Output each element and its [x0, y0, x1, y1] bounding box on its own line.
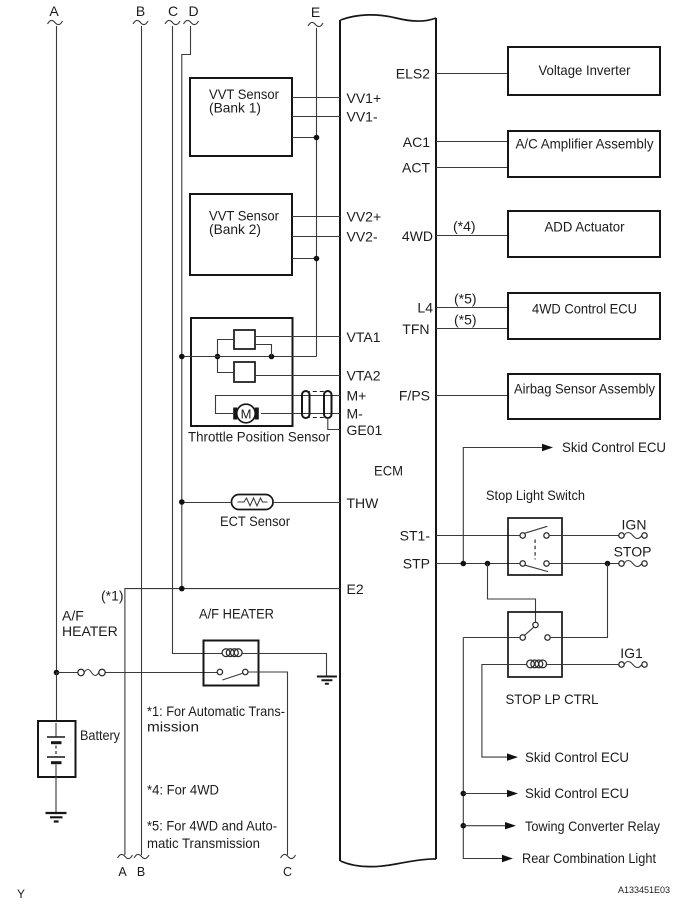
node D junction TPS: [179, 354, 185, 360]
svg-text:Towing Converter Relay: Towing Converter Relay: [525, 818, 660, 834]
connector A top: [48, 3, 63, 25]
svg-text:(*5): (*5): [454, 312, 477, 328]
svg-text:E: E: [311, 4, 320, 20]
wire E: [316, 28, 318, 357]
svg-text:STOP LP CTRL: STOP LP CTRL: [506, 691, 599, 707]
connector E top: [308, 4, 323, 27]
svg-text:ECT Sensor: ECT Sensor: [220, 513, 290, 529]
svg-text:VV2+: VV2+: [347, 209, 382, 225]
svg-text:A/F HEATER: A/F HEATER: [199, 606, 274, 622]
VVT Sensor (Bank 2) box: [190, 194, 292, 275]
ADD Actuator box: [508, 211, 660, 257]
svg-text:IG1: IG1: [620, 645, 643, 661]
svg-text:ADD Actuator: ADD Actuator: [545, 219, 625, 235]
wire M+: [216, 396, 341, 414]
wire VV2-: [292, 236, 341, 238]
svg-text:Stop Light Switch: Stop Light Switch: [486, 487, 585, 503]
wire ACT: [436, 167, 508, 169]
svg-text:(*1): (*1): [101, 588, 124, 604]
wire C: [173, 26, 223, 654]
arrowhead towing: [505, 822, 516, 829]
node STP junction ctrl: [485, 561, 491, 567]
svg-text:A/F: A/F: [62, 608, 84, 624]
fusible link: [57, 669, 218, 675]
wire VV1+: [292, 97, 341, 99]
wire 4WD: [436, 235, 508, 237]
svg-text:HEATER: HEATER: [62, 623, 118, 639]
note *1: [147, 703, 285, 735]
svg-text:Voltage Inverter: Voltage Inverter: [539, 62, 631, 78]
wire AC1: [436, 141, 508, 143]
node STP junction skid: [461, 561, 467, 567]
wire relay output to C bottom: [248, 672, 288, 855]
svg-text:ACT: ACT: [402, 160, 430, 176]
wire D: [182, 26, 191, 589]
node A battery junction: [54, 670, 60, 676]
sensor element square 1: [234, 330, 255, 349]
wire VTA2: [255, 375, 341, 377]
svg-text:L4: L4: [417, 300, 433, 316]
wire VVT1 ground stub: [292, 137, 317, 139]
battery: [38, 673, 120, 778]
motor M1 throttle: [235, 404, 257, 423]
connector C bottom: [281, 854, 296, 879]
svg-text:M-: M-: [347, 406, 364, 422]
svg-text:IGN: IGN: [622, 517, 647, 533]
Throttle Position Sensor box: [188, 318, 330, 445]
arrowhead rear combination light: [502, 855, 513, 862]
label A/F HEATER left: [62, 608, 118, 640]
svg-text:TFN: TFN: [402, 321, 429, 337]
wire IGN: [549, 535, 619, 537]
wire E2: [125, 589, 341, 855]
svg-text:(*5): (*5): [454, 291, 477, 307]
node D junction ECT: [179, 499, 185, 505]
svg-text:*4: For 4WD: *4: For 4WD: [147, 782, 219, 798]
A/C Amplifier Assembly box: [508, 131, 660, 177]
svg-text:*1: For Automatic Trans-: *1: For Automatic Trans-: [147, 703, 285, 719]
svg-text:C: C: [283, 865, 292, 879]
svg-text:Skid Control ECU: Skid Control ECU: [525, 785, 629, 801]
svg-text:M+: M+: [347, 388, 367, 404]
node D junction E2: [179, 586, 185, 592]
node skid 3 junction: [461, 791, 467, 797]
connector IGN: [619, 517, 647, 539]
note *5: [147, 818, 277, 852]
wire L4: [436, 307, 508, 309]
ground A/F heater: [317, 677, 337, 684]
wire A: [56, 26, 58, 673]
svg-text:Y: Y: [17, 887, 25, 901]
wire left contact branch down: [463, 638, 504, 859]
wire sq1 lower stub: [255, 345, 272, 357]
node E junction 1: [314, 135, 320, 141]
wire skid 3: [463, 793, 509, 795]
wire STP: [436, 563, 520, 565]
svg-text:4WD Control ECU: 4WD Control ECU: [532, 301, 637, 317]
svg-text:matic Transmission: matic Transmission: [147, 835, 260, 851]
svg-text:A: A: [49, 3, 59, 19]
node E junction 2: [314, 256, 320, 262]
wire IG1: [546, 664, 619, 666]
wire VV2+: [292, 216, 341, 218]
node STOP junction: [605, 561, 611, 567]
switch SW1 stop light: [508, 518, 562, 575]
arrowhead skid 3: [507, 790, 518, 797]
node sq1 stub junction: [269, 354, 275, 360]
wire skid control 1: [463, 448, 543, 564]
connector A bottom: [118, 854, 133, 879]
svg-text:B: B: [136, 3, 145, 19]
relay STOP LP CTRL: [508, 612, 562, 677]
svg-text:ECM: ECM: [374, 463, 403, 479]
svg-text:(Bank 1): (Bank 1): [209, 100, 261, 116]
svg-text:Rear Combination Light: Rear Combination Light: [522, 850, 656, 866]
svg-text:E2: E2: [347, 581, 364, 597]
op ECM box: [340, 15, 436, 867]
wire B: [141, 26, 143, 855]
svg-text:A133451E03: A133451E03: [618, 885, 670, 895]
svg-text:ST1-: ST1-: [400, 528, 431, 544]
svg-text:A: A: [118, 865, 127, 879]
svg-text:Skid Control ECU: Skid Control ECU: [525, 749, 629, 765]
wire TFN: [436, 328, 508, 330]
svg-text:Skid Control ECU: Skid Control ECU: [562, 439, 666, 455]
connector C top: [165, 3, 180, 25]
svg-text:Airbag Sensor Assembly: Airbag Sensor Assembly: [514, 381, 655, 397]
svg-text:M: M: [241, 407, 252, 422]
svg-text:THW: THW: [347, 495, 380, 511]
wire STOP to relay right: [563, 564, 608, 638]
svg-text:Battery: Battery: [80, 727, 120, 743]
arrowhead skid 2: [507, 753, 518, 760]
wire relay left contact: [463, 637, 520, 639]
wire relay right contact: [550, 637, 562, 639]
svg-text:F/PS: F/PS: [399, 388, 430, 404]
connector STOP: [614, 544, 652, 567]
ground battery: [46, 777, 67, 822]
svg-text:VV1+: VV1+: [347, 90, 382, 106]
connector B bottom: [134, 854, 149, 879]
ECT Sensor: [220, 495, 290, 530]
node bracket junction: [215, 354, 221, 360]
connector D top: [184, 3, 199, 25]
wire coil branch skid 2: [482, 665, 527, 758]
wire VV1-: [292, 116, 341, 118]
wire STOP: [549, 563, 619, 565]
svg-text:4WD: 4WD: [402, 228, 433, 244]
svg-text:ELS2: ELS2: [396, 66, 430, 82]
sensor element square 2: [234, 362, 255, 382]
Airbag Sensor Assembly box: [508, 374, 660, 419]
svg-text:*5: For 4WD and Auto-: *5: For 4WD and Auto-: [147, 818, 277, 834]
wire TPS common node: [182, 356, 317, 358]
wire STP to relay top: [488, 564, 536, 623]
svg-text:STOP: STOP: [614, 544, 652, 560]
wire VVT2 ground stub: [292, 258, 317, 260]
node towing junction: [461, 823, 467, 829]
wire coil to ground: [241, 654, 326, 677]
wire GE01: [328, 418, 341, 430]
arrowhead skid 1: [542, 444, 553, 451]
svg-text:mission: mission: [147, 719, 199, 735]
wire towing converter relay: [463, 825, 507, 827]
svg-text:VV2-: VV2-: [347, 229, 378, 245]
wire ELS2: [436, 73, 508, 75]
svg-text:AC1: AC1: [403, 134, 430, 150]
svg-text:VTA2: VTA2: [347, 368, 381, 384]
svg-text:A/C Amplifier Assembly: A/C Amplifier Assembly: [516, 136, 654, 152]
svg-text:GE01: GE01: [347, 422, 383, 438]
svg-text:(Bank 2): (Bank 2): [209, 221, 261, 237]
svg-text:Throttle Position Sensor: Throttle Position Sensor: [188, 429, 330, 445]
svg-text:D: D: [188, 3, 198, 19]
svg-text:VV1-: VV1-: [347, 109, 378, 125]
connector oval pair: [302, 391, 332, 418]
VVT Sensor (Bank 1) box: [190, 78, 292, 156]
wire sensor left bracket: [218, 340, 235, 373]
svg-text:B: B: [137, 865, 145, 879]
wire ST1-: [436, 535, 520, 537]
svg-text:STP: STP: [403, 556, 430, 572]
wire M-: [261, 413, 341, 415]
svg-text:C: C: [168, 3, 178, 19]
svg-text:(*4): (*4): [453, 218, 476, 234]
wire F/PS: [436, 395, 508, 397]
4WD Control ECU box: [508, 293, 660, 339]
connector B top: [133, 3, 148, 25]
connector IG1: [619, 645, 647, 668]
wire THW left: [182, 502, 232, 504]
wire VTA1: [255, 336, 341, 338]
svg-text:VTA1: VTA1: [347, 329, 381, 345]
relay A/F heater: [204, 641, 259, 686]
Voltage Inverter box: [508, 47, 660, 95]
wire THW: [273, 502, 341, 504]
